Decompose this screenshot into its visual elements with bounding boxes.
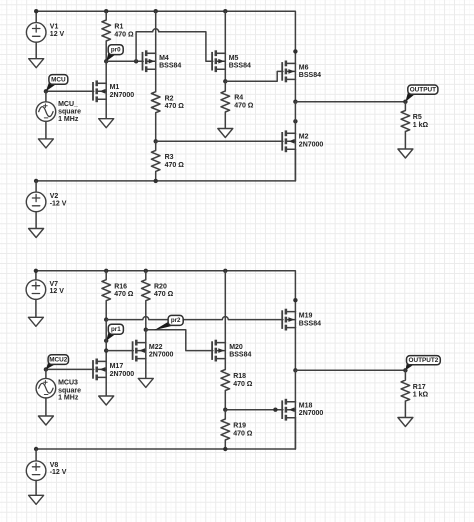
wire M5 drain node to M6 gate — [225, 71, 283, 81]
junction node R2/R3 (M2 gate) — [154, 139, 158, 143]
ground below M17 — [99, 396, 114, 405]
junction rail3 / V7 — [34, 269, 38, 273]
junction node pr1 — [104, 339, 108, 343]
junction rail / V1 — [34, 9, 38, 13]
svg-text:2N7000: 2N7000 — [149, 352, 174, 359]
ground below V1 — [29, 59, 44, 68]
ground below V2 — [29, 229, 44, 238]
junction pr0 branch — [134, 59, 138, 63]
ground below V7 — [28, 317, 43, 326]
node flag OUTPUT2 — [405, 356, 440, 371]
svg-text:470 Ω: 470 Ω — [165, 162, 185, 169]
svg-text:2N7000: 2N7000 — [110, 92, 135, 99]
svg-text:pr2: pr2 — [171, 317, 181, 324]
svg-text:square: square — [58, 109, 81, 116]
resistor R5 — [401, 102, 428, 149]
transistor M4 (BSS84) — [143, 50, 182, 72]
node flag pr2 — [154, 315, 183, 330]
svg-text:470 Ω: 470 Ω — [154, 291, 174, 298]
junction wire join above M2 — [293, 119, 297, 123]
ground below MCU_ source — [38, 139, 53, 148]
junction rail3 / R20 — [144, 269, 148, 273]
ground below MCU3 — [38, 416, 53, 425]
wire M22 drain riser — [145, 330, 147, 343]
junction rail / M4 source — [154, 9, 158, 13]
wire M2 drain riser — [294, 102, 296, 134]
svg-text:BSS84: BSS84 — [229, 352, 251, 359]
wire M5 source riser — [224, 11, 226, 53]
junction node pr1 / M22 gate branch — [104, 348, 108, 352]
svg-text:R1: R1 — [114, 24, 123, 31]
wire OUTPUT2 wire — [295, 369, 405, 371]
wire V2 to ground — [35, 212, 37, 229]
junction node OUTPUT2 / R17 — [403, 368, 407, 372]
svg-text:470 Ω: 470 Ω — [114, 31, 134, 38]
svg-text:V2: V2 — [50, 193, 59, 200]
voltage source V1 (12 V) — [26, 23, 64, 43]
wire V8 to ground — [35, 480, 37, 495]
wire M20 source riser — [224, 271, 226, 343]
transistor M5 (BSS84) — [212, 50, 251, 72]
node flag MCU2 — [46, 355, 69, 370]
resistor R19 — [221, 410, 253, 449]
wire +12V rail (bottom circuit) — [36, 271, 296, 312]
svg-text:R3: R3 — [165, 154, 174, 161]
junction rail / M5 source — [223, 9, 227, 13]
svg-text:M19: M19 — [299, 313, 313, 320]
junction node OUTPUT branch — [293, 100, 297, 104]
wire MCU node to M1 gate — [46, 90, 94, 92]
wire R18/R19 node to M18 gate — [225, 409, 283, 411]
junction wire join on M19 source drop — [293, 298, 297, 302]
svg-text:2N7000: 2N7000 — [299, 410, 324, 417]
svg-text:BSS84: BSS84 — [299, 320, 321, 327]
wire MCU2 node to M17 gate — [46, 368, 94, 370]
wire OUTPUT wire — [295, 101, 405, 103]
node flag OUTPUT — [405, 85, 438, 102]
resistor R3 — [151, 141, 184, 181]
svg-text:M22: M22 — [149, 344, 163, 351]
svg-text:pr1: pr1 — [111, 326, 121, 333]
transistor M17 (2N7000) — [93, 359, 134, 381]
svg-text:R4: R4 — [234, 95, 243, 102]
svg-text:V7: V7 — [50, 281, 59, 288]
wire node pr0 to M4 gate — [106, 60, 143, 62]
ground below R5 — [398, 149, 413, 158]
wire MCU_ to ground — [45, 121, 47, 139]
wire pr1 column — [105, 320, 107, 362]
junction rail2 / R3 — [154, 179, 158, 183]
svg-text:-12 V: -12 V — [50, 200, 67, 207]
svg-text:OUTPUT: OUTPUT — [410, 86, 436, 93]
wire M22 source to ground — [145, 359, 147, 379]
wire M4 source riser — [155, 11, 157, 53]
svg-text:M5: M5 — [229, 55, 239, 62]
ground below V8 — [29, 495, 44, 504]
wire -12V rail (bottom circuit) — [36, 418, 295, 449]
junction rail4 / V8 — [34, 447, 38, 451]
transistor M2 (2N7000) — [282, 130, 323, 152]
wire M18 drain riser — [294, 370, 296, 401]
svg-text:470 Ω: 470 Ω — [233, 430, 253, 437]
svg-text:R5: R5 — [413, 114, 422, 121]
svg-text:2N7000: 2N7000 — [299, 142, 324, 149]
junction node OUTPUT / R5 — [403, 100, 407, 104]
node flag pr1 — [106, 324, 123, 341]
svg-text:470 Ω: 470 Ω — [234, 102, 254, 109]
wire R2/R3 node to M2 gate — [156, 140, 283, 142]
voltage source V7 (12 V) — [26, 280, 64, 300]
svg-text:-12 V: -12 V — [50, 469, 67, 476]
svg-text:MCU: MCU — [51, 76, 66, 83]
transistor M18 (2N7000) — [282, 399, 323, 421]
svg-text:M6: M6 — [299, 65, 309, 72]
wire +12V top rail — [36, 11, 295, 63]
svg-text:R19: R19 — [233, 423, 246, 430]
svg-text:470 Ω: 470 Ω — [114, 291, 134, 298]
svg-text:R18: R18 — [233, 373, 246, 380]
svg-text:V8: V8 — [50, 462, 59, 469]
ground below M22 — [138, 378, 153, 387]
wire M17 source to ground — [105, 377, 107, 396]
wire MCU2 node to MCU3 source — [45, 369, 47, 378]
svg-text:1 kΩ: 1 kΩ — [413, 392, 429, 399]
node flag MCU — [46, 75, 68, 92]
wire -12V rail (top circuit) — [36, 149, 295, 181]
resistor R1 — [102, 11, 134, 61]
wire M19 drain to OUTPUT2 node — [294, 328, 296, 371]
junction wire join on M6 source drop — [293, 49, 297, 53]
svg-text:MCU_: MCU_ — [58, 101, 78, 108]
svg-text:1 MHz: 1 MHz — [58, 395, 79, 402]
junction rail3 / R16 — [104, 269, 108, 273]
source MCU3 (square 1 MHz) — [36, 378, 81, 401]
resistor R17 — [401, 370, 428, 417]
svg-text:M1: M1 — [110, 84, 120, 91]
resistor R2 — [151, 69, 184, 141]
junction node MCU2 — [44, 367, 48, 371]
transistor M22 (2N7000) — [133, 340, 174, 362]
junction node OUTPUT2 branch — [293, 368, 297, 372]
junction node M5 drain / R4 — [223, 79, 227, 83]
svg-text:pr0: pr0 — [111, 46, 121, 53]
voltage source V8 (-12 V) — [26, 461, 66, 481]
junction wire join on M18 gate wire — [273, 408, 277, 412]
svg-text:1 MHz: 1 MHz — [58, 116, 79, 123]
junction node R18/R19 (M18 gate) — [223, 408, 227, 412]
junction rail4 / R19 — [223, 447, 227, 451]
junction node pr0 — [104, 59, 108, 63]
wire MCU node to MCU_ source — [45, 91, 47, 102]
wire M6 drain to OUTPUT node — [294, 79, 296, 101]
svg-text:M20: M20 — [229, 344, 243, 351]
wire M22 gate wire — [106, 350, 133, 352]
voltage source V2 (-12 V) — [26, 192, 66, 212]
wire pr0 branch to M5 gate (hop over M4 drop) — [136, 29, 213, 62]
wire pr2 node to M20 gate — [146, 330, 213, 351]
resistor R18 — [221, 359, 253, 410]
svg-text:MCU2: MCU2 — [49, 356, 68, 363]
junction rail2 / V2 — [34, 179, 38, 183]
transistor M1 (2N7000) — [93, 80, 134, 102]
wire M5 drain to node — [224, 69, 226, 81]
junction rail / R1 — [104, 9, 108, 13]
junction node pr1 top (M19 gate wire) — [104, 317, 108, 321]
ground below R4 — [218, 129, 233, 138]
svg-text:12 V: 12 V — [50, 288, 65, 295]
svg-text:MCU3: MCU3 — [58, 380, 78, 387]
svg-text:square: square — [58, 387, 81, 394]
svg-text:M18: M18 — [299, 402, 313, 409]
wire V7 to ground — [35, 299, 37, 317]
svg-text:R2: R2 — [165, 95, 174, 102]
svg-text:BSS84: BSS84 — [159, 63, 181, 70]
source MCU_ (square 1 MHz) — [36, 101, 81, 123]
wire M18 source to rail4 — [294, 418, 296, 449]
svg-text:R20: R20 — [154, 283, 167, 290]
svg-text:2N7000: 2N7000 — [110, 371, 135, 378]
svg-text:12 V: 12 V — [50, 31, 65, 38]
svg-text:R17: R17 — [413, 384, 426, 391]
resistor R4 — [221, 81, 254, 128]
svg-text:M2: M2 — [299, 134, 309, 141]
junction rail3 / M20 source — [223, 269, 227, 273]
wire M1 drain to node pr0 — [105, 61, 107, 83]
transistor M19 (BSS84) — [282, 309, 321, 331]
transistor M20 (BSS84) — [212, 340, 251, 362]
transistor M6 (BSS84) — [282, 61, 321, 83]
wire V8 riser — [35, 449, 37, 461]
wire V2 riser — [35, 181, 37, 192]
wire M1 source to ground — [105, 99, 107, 118]
resistor R16 — [102, 271, 134, 320]
junction node pr2 — [144, 328, 148, 332]
svg-text:V1: V1 — [50, 24, 59, 31]
resistor R20 — [142, 271, 174, 330]
wire MCU3 to ground — [45, 398, 47, 416]
svg-text:OUTPUT2: OUTPUT2 — [408, 357, 438, 364]
wire M2 source to rail2 — [294, 149, 296, 181]
svg-text:BSS84: BSS84 — [299, 72, 321, 79]
wire V1 to ground — [35, 42, 37, 59]
ground below R17 — [398, 418, 413, 427]
node flag pr0 — [106, 45, 123, 62]
wire V7 riser — [35, 271, 37, 280]
ground below M1 — [99, 119, 114, 128]
svg-text:M4: M4 — [159, 55, 169, 62]
svg-text:470 Ω: 470 Ω — [233, 381, 253, 388]
svg-text:BSS84: BSS84 — [229, 63, 251, 70]
wire V1 riser to rail — [35, 11, 37, 23]
wire long wire to M19 gate (hops R20 and M20 columns) — [106, 317, 283, 320]
svg-text:R16: R16 — [114, 283, 127, 290]
junction node MCU — [44, 89, 48, 93]
svg-text:470 Ω: 470 Ω — [165, 103, 185, 110]
svg-text:M17: M17 — [110, 363, 124, 370]
svg-text:1 kΩ: 1 kΩ — [413, 122, 429, 129]
